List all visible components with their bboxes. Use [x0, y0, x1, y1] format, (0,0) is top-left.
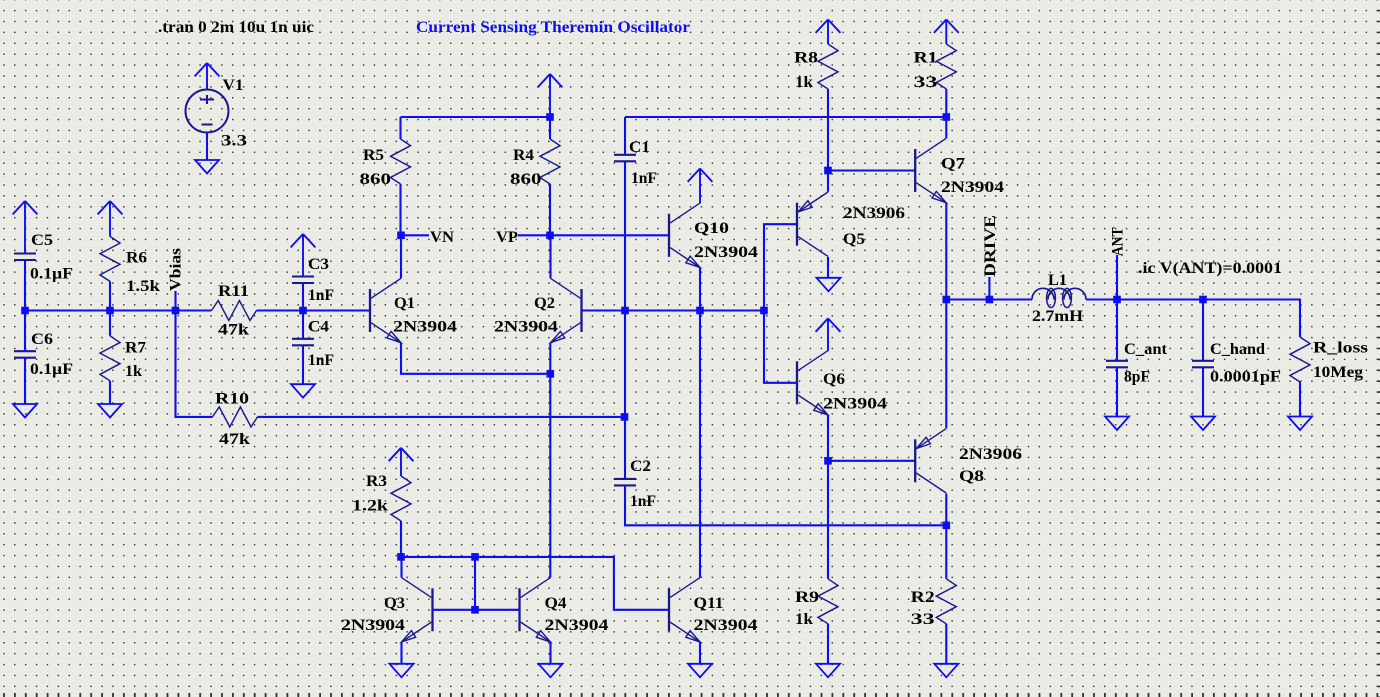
- svg-text:2N3904: 2N3904: [823, 396, 887, 413]
- svg-text:Current Sensing Theremin Oscil: Current Sensing Theremin Oscillator: [416, 19, 690, 36]
- power flag above R6: [98, 201, 123, 236]
- power flag above R3: [389, 448, 414, 476]
- svg-text:2N3904: 2N3904: [694, 617, 758, 634]
- wire Q1 collector to VN: [400, 235, 402, 278]
- value 0.1uF C6: [30, 361, 73, 378]
- ground below Q5: [817, 278, 841, 292]
- label R10: [215, 390, 249, 407]
- capacitor C2: [614, 479, 636, 486]
- svg-text:V1: V1: [223, 77, 244, 94]
- junction C2 row at Q8: [943, 522, 951, 530]
- transistor Q6: [797, 351, 828, 415]
- label R5: [363, 147, 384, 164]
- svg-text:1.2k: 1.2k: [352, 498, 388, 515]
- junction right bus end: [760, 307, 768, 315]
- wire Q7 emitter to DRIVE: [945, 203, 947, 300]
- wire Q3 base row: [433, 609, 520, 611]
- ground below R2: [934, 664, 958, 678]
- wire ANT to C_ant: [1116, 300, 1118, 361]
- wire to Q8 base: [828, 460, 915, 462]
- value 1nF C3: [308, 287, 334, 304]
- label Q6: [823, 371, 845, 388]
- value 1k R8: [795, 74, 813, 91]
- svg-text:1nF: 1nF: [631, 170, 657, 187]
- wire R6 to bus: [109, 281, 111, 310]
- node label DRIVE: [982, 215, 999, 277]
- bottom edge grid dashes: [3, 693, 1378, 697]
- junction C_hand: [1199, 296, 1207, 304]
- wire Q8 emitter up to DRIVE: [945, 300, 947, 429]
- node DRIVE stub: [988, 277, 990, 300]
- svg-text:C_hand: C_hand: [1210, 341, 1265, 358]
- value 2N3904 Q10: [694, 244, 758, 261]
- wire Q4 emitter down: [549, 642, 551, 663]
- label L1: [1048, 272, 1067, 289]
- svg-text:Q10: Q10: [694, 220, 729, 237]
- node VP stub: [518, 234, 550, 236]
- wire R4 to VP: [549, 184, 551, 235]
- svg-text:2.7mH: 2.7mH: [1032, 308, 1083, 325]
- wire Q4 collector up: [549, 374, 551, 578]
- node VN stub: [401, 234, 429, 236]
- transistor Q5: [797, 192, 828, 256]
- wire C5 to bus: [24, 261, 26, 311]
- label R11: [218, 283, 249, 300]
- junction Vbias at bus: [172, 307, 180, 315]
- junction R8/Q5/Q7 base: [824, 167, 832, 175]
- spice directive .tran: [158, 19, 314, 36]
- svg-text:R10: R10: [215, 390, 249, 407]
- power flag above R8: [816, 20, 841, 45]
- ground below V1: [195, 160, 219, 174]
- node label VN: [430, 229, 454, 246]
- label Q11: [694, 595, 724, 612]
- wire left bus: [25, 309, 212, 311]
- value 1k R9: [795, 611, 813, 628]
- value 2N3904 Q4: [545, 617, 609, 634]
- label R2: [911, 589, 935, 606]
- wire bus to C6: [24, 311, 26, 352]
- voltage source V1: [186, 90, 229, 133]
- svg-text:47k: 47k: [219, 431, 250, 448]
- wire R2 top lead: [945, 525, 947, 579]
- label C3: [308, 256, 329, 273]
- transistor Q1: [370, 278, 401, 342]
- ground below C6: [13, 404, 37, 418]
- wire Q5 collector down: [827, 257, 829, 278]
- svg-text:C4: C4: [308, 319, 329, 336]
- wire Q6 emitter down: [827, 415, 829, 461]
- svg-text:R1: R1: [914, 50, 938, 67]
- label C_hand: [1210, 341, 1265, 358]
- wire C2 to row: [625, 486, 946, 525]
- value 1.2k: [352, 498, 388, 515]
- label C1: [629, 139, 650, 156]
- value 1nF C1: [631, 170, 657, 187]
- svg-text:860: 860: [360, 171, 392, 188]
- svg-text:47k: 47k: [218, 322, 249, 339]
- value 47k R10: [219, 431, 250, 448]
- wire C_hand to ground: [1202, 368, 1204, 417]
- wire bus to Q5 base: [764, 224, 797, 310]
- ground below R9: [816, 664, 840, 678]
- power flag above R1: [934, 20, 959, 45]
- capacitor C3: [292, 277, 314, 284]
- node label VP: [496, 229, 519, 246]
- value 8pF: [1124, 369, 1150, 386]
- wire C_ant to ground: [1116, 368, 1118, 417]
- value 33 R2: [911, 611, 935, 628]
- wire top rail A: [401, 116, 551, 118]
- svg-text:.ic V(ANT)=0.0001: .ic V(ANT)=0.0001: [1138, 260, 1282, 277]
- ground below Q3: [390, 664, 414, 678]
- wire L1 to ANT: [1086, 298, 1117, 300]
- wire Q11 emitter down: [699, 642, 701, 663]
- svg-text:R6: R6: [126, 250, 147, 267]
- svg-text:1nF: 1nF: [630, 493, 656, 510]
- svg-text:R5: R5: [363, 147, 384, 164]
- svg-text:1nF: 1nF: [308, 287, 334, 304]
- resistor R_loss: [1290, 337, 1310, 382]
- label Q5: [843, 231, 865, 248]
- wire Vbias column down: [176, 311, 213, 417]
- svg-text:Vbias: Vbias: [168, 248, 185, 291]
- wire Q1 emitter down: [401, 343, 550, 374]
- svg-text:Q2: Q2: [534, 295, 555, 312]
- value 2N3906 Q5: [843, 205, 905, 222]
- value 2N3904 Q7: [941, 179, 1004, 196]
- wire R9 top lead: [827, 461, 829, 579]
- svg-text:Q6: Q6: [823, 371, 845, 388]
- junction R6/R7 at bus: [106, 307, 114, 315]
- value 33 R1: [914, 74, 938, 91]
- inductor L1: [1032, 288, 1086, 307]
- wire R_loss to ground: [1299, 382, 1301, 417]
- transistor Q3: [402, 578, 433, 642]
- label R1: [914, 50, 938, 67]
- wire R4 top lead: [549, 117, 551, 139]
- svg-text:1.5k: 1.5k: [126, 278, 160, 295]
- resistor R6: [100, 236, 120, 281]
- capacitor C5: [14, 254, 36, 261]
- wire Q2 emitter down: [549, 343, 551, 374]
- svg-text:C6: C6: [31, 331, 53, 348]
- label C4: [308, 319, 329, 336]
- svg-text:L1: L1: [1048, 272, 1067, 289]
- wire R3 row: [401, 557, 669, 610]
- wire R5 top lead: [399, 117, 401, 139]
- svg-text:C5: C5: [31, 232, 53, 249]
- value 2.7mH: [1032, 308, 1083, 325]
- svg-text:R8: R8: [794, 50, 818, 67]
- value 860 R4: [510, 171, 542, 188]
- svg-text:C3: C3: [308, 256, 329, 273]
- wire R10 to C column: [258, 416, 625, 418]
- value 1.5k: [126, 278, 160, 295]
- svg-text:2N3904: 2N3904: [694, 244, 758, 261]
- ground below C_ant: [1105, 417, 1129, 431]
- wire C6 to ground: [24, 358, 26, 404]
- svg-text:R4: R4: [513, 147, 534, 164]
- wire C_hand top lead: [1202, 300, 1204, 361]
- transistor Q10: [669, 203, 700, 267]
- wire R8 to junction: [827, 89, 829, 171]
- svg-text:VN: VN: [430, 229, 454, 246]
- wire C1 top lead: [624, 117, 626, 154]
- wire Q3 collector up: [400, 557, 402, 578]
- junction C3/C4 at bus: [299, 307, 307, 315]
- value 2N3904 Q2: [494, 319, 558, 336]
- label V1: [223, 77, 244, 94]
- capacitor C_ant: [1106, 361, 1128, 368]
- node Vbias stub: [174, 291, 176, 311]
- value 2N3906 Q8: [959, 446, 1022, 463]
- svg-text:R3: R3: [366, 473, 387, 490]
- svg-text:3.3: 3.3: [221, 133, 247, 150]
- capacitor C1: [614, 155, 636, 162]
- svg-text:Q7: Q7: [941, 156, 965, 173]
- transistor Q11: [669, 578, 700, 642]
- value 2N3904 Q6: [823, 396, 887, 413]
- resistor R11: [212, 301, 257, 321]
- resistor R10: [213, 407, 258, 427]
- wire R3 to row: [400, 521, 402, 557]
- junction C column at bus: [621, 307, 629, 315]
- label Q8: [959, 468, 984, 485]
- title comment: [416, 19, 690, 36]
- power flag above Q10: [688, 169, 713, 204]
- svg-text:860: 860: [510, 171, 542, 188]
- resistor R1: [936, 44, 956, 89]
- ground below Q4: [539, 664, 563, 678]
- spice directive .ic: [1138, 260, 1282, 277]
- junction Q6/R9/Q8 base: [824, 457, 832, 465]
- label R_loss: [1313, 340, 1368, 357]
- label R7: [125, 339, 146, 356]
- label R6: [126, 250, 147, 267]
- junction mirror row lower: [471, 606, 479, 614]
- ground below R7: [98, 404, 122, 418]
- junction rail A: [546, 113, 554, 121]
- svg-text:R2: R2: [911, 589, 935, 606]
- wire ANT row to C_hand: [1117, 298, 1203, 300]
- svg-text:Q8: Q8: [959, 468, 984, 485]
- wire C4 to ground: [302, 346, 304, 384]
- svg-text:1nF: 1nF: [308, 352, 334, 369]
- label Q7: [941, 156, 965, 173]
- ground below Q11: [688, 664, 712, 678]
- resistor R9: [818, 579, 838, 624]
- svg-text:C2: C2: [630, 458, 651, 475]
- svg-text:1k: 1k: [795, 74, 813, 91]
- svg-text:0.0001pF: 0.0001pF: [1210, 369, 1281, 386]
- svg-text:8pF: 8pF: [1124, 369, 1150, 386]
- value 2N3904 Q1: [393, 319, 457, 336]
- svg-text:R_loss: R_loss: [1313, 340, 1368, 357]
- wire Q11 collector column: [699, 311, 701, 578]
- wire C column to C2: [624, 417, 626, 479]
- resistor R8: [818, 44, 838, 89]
- junction rail B end: [943, 113, 951, 121]
- junction mirror row upper: [471, 553, 479, 561]
- value 3.3: [221, 133, 247, 150]
- junction Q7 emitter DRIVE: [943, 296, 951, 304]
- value 0.1uF C5: [30, 266, 73, 283]
- label Q2: [534, 295, 555, 312]
- value 2N3904 Q11: [694, 617, 758, 634]
- svg-text:ANT: ANT: [1109, 227, 1126, 257]
- wire Q2 base to bus: [582, 309, 626, 311]
- value 10Meg: [1313, 364, 1363, 381]
- wire top rail B: [625, 116, 946, 118]
- wire R2 to ground: [945, 624, 947, 664]
- node ANT stub: [1116, 255, 1118, 300]
- junction emitter bus: [547, 370, 555, 378]
- svg-text:C_ant: C_ant: [1124, 341, 1168, 358]
- junction C5/C6 at bus: [21, 307, 29, 315]
- node label Vbias: [168, 248, 185, 291]
- svg-text:VP: VP: [496, 229, 519, 246]
- label C_ant: [1124, 341, 1168, 358]
- junction ANT: [1113, 296, 1121, 304]
- svg-text:2N3904: 2N3904: [545, 617, 609, 634]
- label R3: [366, 473, 387, 490]
- wire R11 to Q1 base: [257, 309, 371, 311]
- svg-text:1k: 1k: [795, 611, 813, 628]
- svg-text:DRIVE: DRIVE: [982, 215, 999, 277]
- svg-text:2N3904: 2N3904: [393, 319, 457, 336]
- svg-text:Q4: Q4: [545, 595, 567, 612]
- label C2: [630, 458, 651, 475]
- power flag on rail A: [538, 74, 563, 117]
- label R4: [513, 147, 534, 164]
- transistor Q4: [520, 578, 551, 642]
- label R9: [795, 589, 819, 606]
- svg-text:R9: R9: [795, 589, 819, 606]
- wire R1 to rail B: [945, 89, 947, 117]
- value 2N3904 Q3: [341, 617, 405, 634]
- junction Q10 emitter at bus: [696, 307, 704, 315]
- capacitor C_hand: [1192, 361, 1214, 368]
- wire bus to Q6 base: [764, 311, 797, 383]
- label Q4: [545, 595, 567, 612]
- transistor Q2: [551, 278, 582, 342]
- wire R7 to ground: [109, 381, 111, 404]
- wire mirror column: [474, 557, 476, 610]
- wire Q8 collector down: [945, 494, 947, 526]
- value 860 R5: [360, 171, 392, 188]
- svg-text:10Meg: 10Meg: [1313, 364, 1363, 381]
- wire to R_loss: [1203, 300, 1300, 338]
- svg-text:Q11: Q11: [694, 595, 724, 612]
- svg-text:2N3904: 2N3904: [941, 179, 1004, 196]
- wire to Q7 base: [828, 169, 915, 171]
- resistor R3: [391, 476, 411, 521]
- power flag above C5: [13, 201, 38, 253]
- resistor R5: [391, 139, 411, 184]
- svg-text:R7: R7: [125, 339, 146, 356]
- wire Q2 collector to VP: [549, 235, 551, 278]
- wire Q3 emitter down: [400, 642, 402, 663]
- wire DRIVE row: [946, 298, 1032, 300]
- svg-text:33: 33: [914, 74, 938, 91]
- svg-text:Q3: Q3: [384, 595, 405, 612]
- label C5: [31, 232, 53, 249]
- wire VP row to Q10 base: [550, 234, 669, 236]
- wire V1 to ground: [206, 133, 208, 161]
- value 1nF C2: [630, 493, 656, 510]
- label Q1: [394, 295, 415, 312]
- power flag above Q6: [816, 318, 841, 350]
- wire Q10 emitter down: [699, 268, 701, 311]
- ground below C_hand: [1191, 417, 1215, 431]
- wire R9 to ground: [827, 624, 829, 664]
- junction VP: [546, 232, 554, 240]
- svg-text:2N3906: 2N3906: [843, 205, 905, 222]
- power flag above C3: [291, 234, 316, 276]
- svg-text:0.1µF: 0.1µF: [30, 361, 73, 378]
- svg-text:1k: 1k: [125, 363, 142, 380]
- power flag above V1: [195, 63, 220, 90]
- value 47k R11: [218, 322, 249, 339]
- wire R5 to VN: [399, 184, 401, 235]
- capacitor C6: [14, 351, 36, 358]
- wire C3 to bus: [302, 284, 304, 311]
- svg-text:2N3904: 2N3904: [494, 319, 558, 336]
- wire Q7 collector up: [945, 117, 947, 138]
- transistor Q7: [915, 138, 946, 202]
- wire bus to R7: [109, 311, 111, 336]
- resistor R2: [936, 579, 956, 624]
- svg-text:0.1µF: 0.1µF: [30, 266, 73, 283]
- wire Q5 emitter up: [827, 171, 829, 192]
- value 1nF C4: [308, 352, 334, 369]
- svg-text:.tran 0 2m 10u 1n uic: .tran 0 2m 10u 1n uic: [158, 19, 314, 36]
- svg-text:C1: C1: [629, 139, 650, 156]
- junction DRIVE stub: [986, 296, 994, 304]
- ground below R_loss: [1288, 417, 1312, 431]
- resistor R4: [540, 139, 560, 184]
- junction VN: [397, 232, 405, 240]
- resistor R7: [100, 336, 120, 381]
- svg-text:2N3904: 2N3904: [341, 617, 405, 634]
- svg-text:Q1: Q1: [394, 295, 415, 312]
- ground below C4: [291, 384, 315, 398]
- svg-text:2N3906: 2N3906: [959, 446, 1022, 463]
- label C6: [31, 331, 53, 348]
- wire bus to C4: [302, 311, 304, 339]
- value 1k R7: [125, 363, 142, 380]
- label R8: [794, 50, 818, 67]
- wire mid bus: [625, 309, 764, 311]
- svg-text:R11: R11: [218, 283, 249, 300]
- junction R10 at C column: [621, 413, 629, 421]
- capacitor C4: [292, 339, 314, 346]
- transistor Q8: [915, 429, 946, 493]
- label Q10: [694, 220, 729, 237]
- right edge grid dashes: [1378, 10, 1380, 697]
- value 0.0001pF: [1210, 369, 1281, 386]
- node label ANT: [1109, 227, 1126, 257]
- wire C1 down column: [624, 162, 626, 417]
- svg-text:33: 33: [911, 611, 935, 628]
- junction R3 row: [397, 553, 405, 561]
- label Q3: [384, 595, 405, 612]
- svg-text:Q5: Q5: [843, 231, 865, 248]
